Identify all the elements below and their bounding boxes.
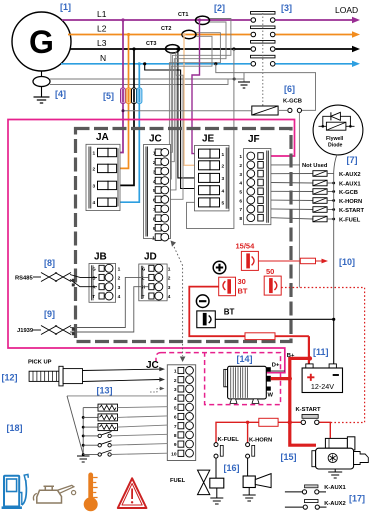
svg-text:Flywell: Flywell <box>326 136 344 142</box>
svg-text:G: G <box>142 266 146 271</box>
svg-text:K-AUX1: K-AUX1 <box>324 485 346 491</box>
fuse link F-N <box>137 88 142 104</box>
svg-text:30: 30 <box>238 277 246 286</box>
svg-text:2: 2 <box>239 163 242 169</box>
svg-text:T: T <box>142 294 145 299</box>
K-HORN contact <box>246 438 273 459</box>
wire alternator B+ <box>271 376 292 380</box>
svg-text:3: 3 <box>174 387 177 393</box>
fuse link F-L3 <box>132 88 137 104</box>
wire L2 sense to JE2 <box>182 33 200 165</box>
svg-text:JB: JB <box>94 252 107 263</box>
current transformer CT3 <box>166 45 180 53</box>
svg-text:3: 3 <box>118 285 121 291</box>
relay coil K-FUEL <box>271 216 361 223</box>
wire K-GCB contact down <box>298 113 300 288</box>
current transformer CT1 <box>196 16 210 24</box>
svg-text:[5]: [5] <box>103 91 114 101</box>
svg-text:1: 1 <box>168 267 171 273</box>
wire CT1 secondary a <box>171 19 231 153</box>
svg-text:[8]: [8] <box>44 258 55 268</box>
svg-text:6: 6 <box>239 198 242 204</box>
resistive sender R3 <box>82 424 168 431</box>
breaker actuator coil <box>252 106 288 115</box>
svg-text:7: 7 <box>174 424 177 430</box>
connector JC pins <box>152 148 169 241</box>
svg-text:12-24V: 12-24V <box>311 382 334 391</box>
svg-text:L1: L1 <box>97 9 107 19</box>
wire actuator to L1 <box>122 109 252 112</box>
svg-text:[16]: [16] <box>224 463 240 473</box>
connector JD pins <box>142 264 171 300</box>
svg-text:JC: JC <box>149 134 162 145</box>
svg-text:CT3: CT3 <box>146 41 156 47</box>
ground generator <box>34 97 50 103</box>
svg-text:5: 5 <box>239 190 242 196</box>
svg-text:2: 2 <box>174 378 177 384</box>
wire N tap to JA4 <box>120 62 141 202</box>
svg-text:8: 8 <box>239 216 242 222</box>
generator G1 <box>12 12 71 71</box>
svg-text:2: 2 <box>222 164 225 170</box>
circuit breaker Q1 pole N <box>251 55 276 66</box>
svg-text:L3: L3 <box>97 38 107 48</box>
svg-text:K-AUX2: K-AUX2 <box>324 501 346 507</box>
svg-text:3: 3 <box>93 183 96 189</box>
svg-text:8: 8 <box>174 433 177 439</box>
switch sender S1 <box>82 431 168 437</box>
connector JC <box>144 145 171 239</box>
svg-text:J1939: J1939 <box>17 328 34 334</box>
relay coil K-AUX1 <box>271 180 361 187</box>
wire CT2 secondary a <box>169 33 220 170</box>
svg-text:1: 1 <box>174 369 177 375</box>
neutral current transformer <box>33 77 50 87</box>
svg-text:4: 4 <box>222 188 225 194</box>
svg-text:4: 4 <box>174 396 177 402</box>
circuit breaker Q1 pole L1 <box>251 12 276 23</box>
relay coil K-START <box>271 207 364 214</box>
svg-text:[1]: [1] <box>60 2 71 12</box>
wire neutral to ground <box>41 87 43 98</box>
wire PE down to JE5 <box>232 47 235 50</box>
plus symbol <box>213 261 226 274</box>
svg-text:[7]: [7] <box>347 155 358 165</box>
svg-text:[17]: [17] <box>349 494 365 504</box>
terminal 50 <box>264 267 281 295</box>
svg-text:4: 4 <box>168 294 171 300</box>
svg-text:K-HORN: K-HORN <box>249 438 272 444</box>
battery main junction <box>290 356 316 445</box>
neutral CT secondary wires <box>50 79 234 85</box>
K-FUEL contact <box>214 437 239 458</box>
connector JB <box>89 264 116 303</box>
thermometer icon <box>84 473 98 512</box>
svg-text:BT: BT <box>238 287 248 296</box>
svg-text:7: 7 <box>239 207 242 213</box>
ground symbol PE <box>238 82 250 88</box>
wire L2 bus <box>68 31 360 37</box>
svg-text:1: 1 <box>222 152 225 158</box>
K-GCB relay contact <box>288 108 302 112</box>
wire 30BT to battery plus with fuse <box>189 287 309 365</box>
svg-text:Not Used: Not Used <box>302 163 328 169</box>
wires through fuse links <box>123 89 139 103</box>
pickup sensor <box>29 366 165 392</box>
wire N sense to JE4 <box>143 62 199 188</box>
K-AUX1 contact <box>285 485 347 494</box>
charging alternator dashed boundary <box>156 353 281 405</box>
svg-text:K-AUX2: K-AUX2 <box>339 172 361 178</box>
svg-text:1: 1 <box>93 151 96 157</box>
wire CT3 secondary a <box>171 53 177 190</box>
svg-text:4: 4 <box>239 181 242 187</box>
fuse link F-L2 <box>126 88 131 104</box>
svg-text:2: 2 <box>93 166 96 172</box>
svg-text:T: T <box>92 294 95 299</box>
svg-text:B+: B+ <box>287 353 295 359</box>
svg-text:JC: JC <box>146 360 159 371</box>
svg-text:4: 4 <box>118 294 121 300</box>
connector JF pins <box>239 152 263 222</box>
wire L3 tap to JA3 <box>120 47 135 185</box>
RS485 twisted pair <box>15 273 97 287</box>
ground senders <box>77 456 90 462</box>
svg-text:2: 2 <box>168 276 171 282</box>
svg-text:JA: JA <box>96 132 109 143</box>
wire L1 tap to JA1 <box>120 18 124 152</box>
svg-text:1: 1 <box>118 267 121 273</box>
Not Used wire <box>271 163 328 169</box>
flywheel diode detail circle <box>313 105 363 172</box>
connector JA <box>86 144 120 210</box>
battery 12-24V <box>302 364 342 393</box>
svg-text:BT: BT <box>224 308 235 317</box>
wire battery feed to loads <box>216 418 330 442</box>
charging alternator <box>224 362 285 403</box>
switch sender S3 <box>82 450 168 456</box>
wire L1 sense to JE1 <box>192 18 201 153</box>
relay coil K-GCB <box>271 189 358 196</box>
svg-text:15/54: 15/54 <box>236 242 256 251</box>
svg-text:3: 3 <box>239 172 242 178</box>
svg-text:[13]: [13] <box>97 386 113 396</box>
svg-text:[15]: [15] <box>281 452 297 462</box>
JC mating connector pins <box>171 367 193 458</box>
minus symbol <box>196 295 209 308</box>
svg-text:JD: JD <box>144 252 157 263</box>
connector JD <box>139 264 167 301</box>
fuse link F-L1 <box>121 88 126 104</box>
svg-text:JE: JE <box>202 134 215 145</box>
wire BT to battery minus <box>215 318 335 365</box>
terminal 30 BT <box>219 277 248 296</box>
terminal BT <box>197 308 235 328</box>
svg-text:1: 1 <box>239 154 242 160</box>
svg-text:[3]: [3] <box>281 3 292 13</box>
generator neutral lead <box>41 71 43 77</box>
svg-text:[18]: [18] <box>7 423 23 433</box>
svg-text:[11]: [11] <box>313 347 329 357</box>
svg-text:K-HORN: K-HORN <box>339 199 362 205</box>
wire 15/54 to dashboard <box>258 258 328 264</box>
svg-text:[9]: [9] <box>44 309 55 319</box>
svg-text:9: 9 <box>174 442 177 448</box>
starter motor M1 <box>312 437 368 478</box>
circuit breaker Q1 pole L2 <box>251 26 276 37</box>
svg-text:L2: L2 <box>97 24 107 34</box>
relay coil K-AUX2 <box>271 171 361 178</box>
wire L1 bus <box>62 17 360 23</box>
resistive sender R1 <box>83 404 167 411</box>
svg-text:3: 3 <box>168 285 171 291</box>
wire CT2 secondary b <box>171 36 212 179</box>
svg-text:LOAD: LOAD <box>335 5 358 15</box>
svg-text:K-FUEL: K-FUEL <box>339 218 361 224</box>
wire L3 sense to JE3 <box>176 47 199 178</box>
fuel solenoid valve <box>198 458 224 504</box>
relay coil K-HORN <box>271 198 362 205</box>
wire N bus <box>61 61 360 67</box>
wire CT1 secondary b <box>171 22 227 162</box>
wire L3 bus <box>70 46 360 52</box>
circuit breaker Q1 pole L3 <box>251 41 276 52</box>
svg-text:[14]: [14] <box>237 354 253 364</box>
ground node PE <box>233 73 244 82</box>
relay common bus <box>333 172 335 319</box>
connector JE <box>195 145 230 211</box>
svg-text:[2]: [2] <box>214 3 225 13</box>
svg-text:[6]: [6] <box>284 84 295 94</box>
K-START contact <box>296 407 321 424</box>
svg-text:Diode: Diode <box>328 143 343 149</box>
connector JF <box>244 149 271 225</box>
svg-text:5: 5 <box>222 201 225 207</box>
breaker trip dashed link <box>262 13 264 106</box>
connector JB pins <box>92 264 120 300</box>
svg-text:FUEL: FUEL <box>170 478 186 484</box>
svg-text:K-GCB: K-GCB <box>283 99 302 105</box>
J1939 twisted pair <box>17 277 149 335</box>
current transformer CT2 <box>182 30 196 38</box>
panel boundary magenta <box>8 120 295 373</box>
resistive sender R2 <box>82 414 168 421</box>
warning triangle icon <box>118 478 147 508</box>
svg-text:PICK UP: PICK UP <box>28 360 52 366</box>
svg-text:G: G <box>29 24 54 60</box>
svg-text:G: G <box>92 266 96 271</box>
svg-text:W: W <box>268 393 274 399</box>
JC mating connector <box>167 365 195 461</box>
svg-text:[4]: [4] <box>55 89 66 99</box>
wire N to breaker actuator supply <box>214 62 315 110</box>
svg-text:[10]: [10] <box>339 257 355 267</box>
svg-text:4: 4 <box>93 200 96 206</box>
svg-text:50: 50 <box>266 267 274 276</box>
svg-text:K-AUX1: K-AUX1 <box>339 182 361 188</box>
svg-text:5: 5 <box>174 405 177 411</box>
dotted mating line JC <box>171 241 186 363</box>
svg-text:L: L <box>142 275 145 280</box>
switch sender S2 <box>82 441 168 447</box>
svg-text:H: H <box>142 285 145 290</box>
svg-text:D+: D+ <box>272 362 280 368</box>
wire L2 tap to JA2 <box>120 33 130 169</box>
svg-text:K-START: K-START <box>296 407 321 413</box>
svg-text:JF: JF <box>248 134 260 145</box>
svg-text:RS485: RS485 <box>15 276 34 282</box>
svg-text:2: 2 <box>118 276 121 282</box>
horn H1 <box>243 458 271 501</box>
fuel pump icon <box>2 474 29 509</box>
svg-text:N: N <box>100 53 106 63</box>
wire CT3 secondary b <box>171 52 184 200</box>
svg-text:CT2: CT2 <box>161 26 171 32</box>
wire 50 to K-START dotted <box>281 288 364 423</box>
svg-text:K-FUEL: K-FUEL <box>218 437 240 443</box>
oil can icon <box>33 485 75 503</box>
svg-text:3: 3 <box>222 176 225 182</box>
svg-text:[12]: [12] <box>2 373 18 383</box>
terminal 15/54 <box>236 242 259 271</box>
svg-text:K-GCB: K-GCB <box>339 190 358 196</box>
svg-text:6: 6 <box>174 415 177 421</box>
svg-text:10: 10 <box>171 451 177 457</box>
K-AUX2 contact <box>285 500 346 510</box>
sender common wire <box>67 396 167 456</box>
svg-text:CT1: CT1 <box>178 12 188 18</box>
svg-text:K-START: K-START <box>339 208 364 214</box>
controller dashed enclosure <box>76 129 292 342</box>
